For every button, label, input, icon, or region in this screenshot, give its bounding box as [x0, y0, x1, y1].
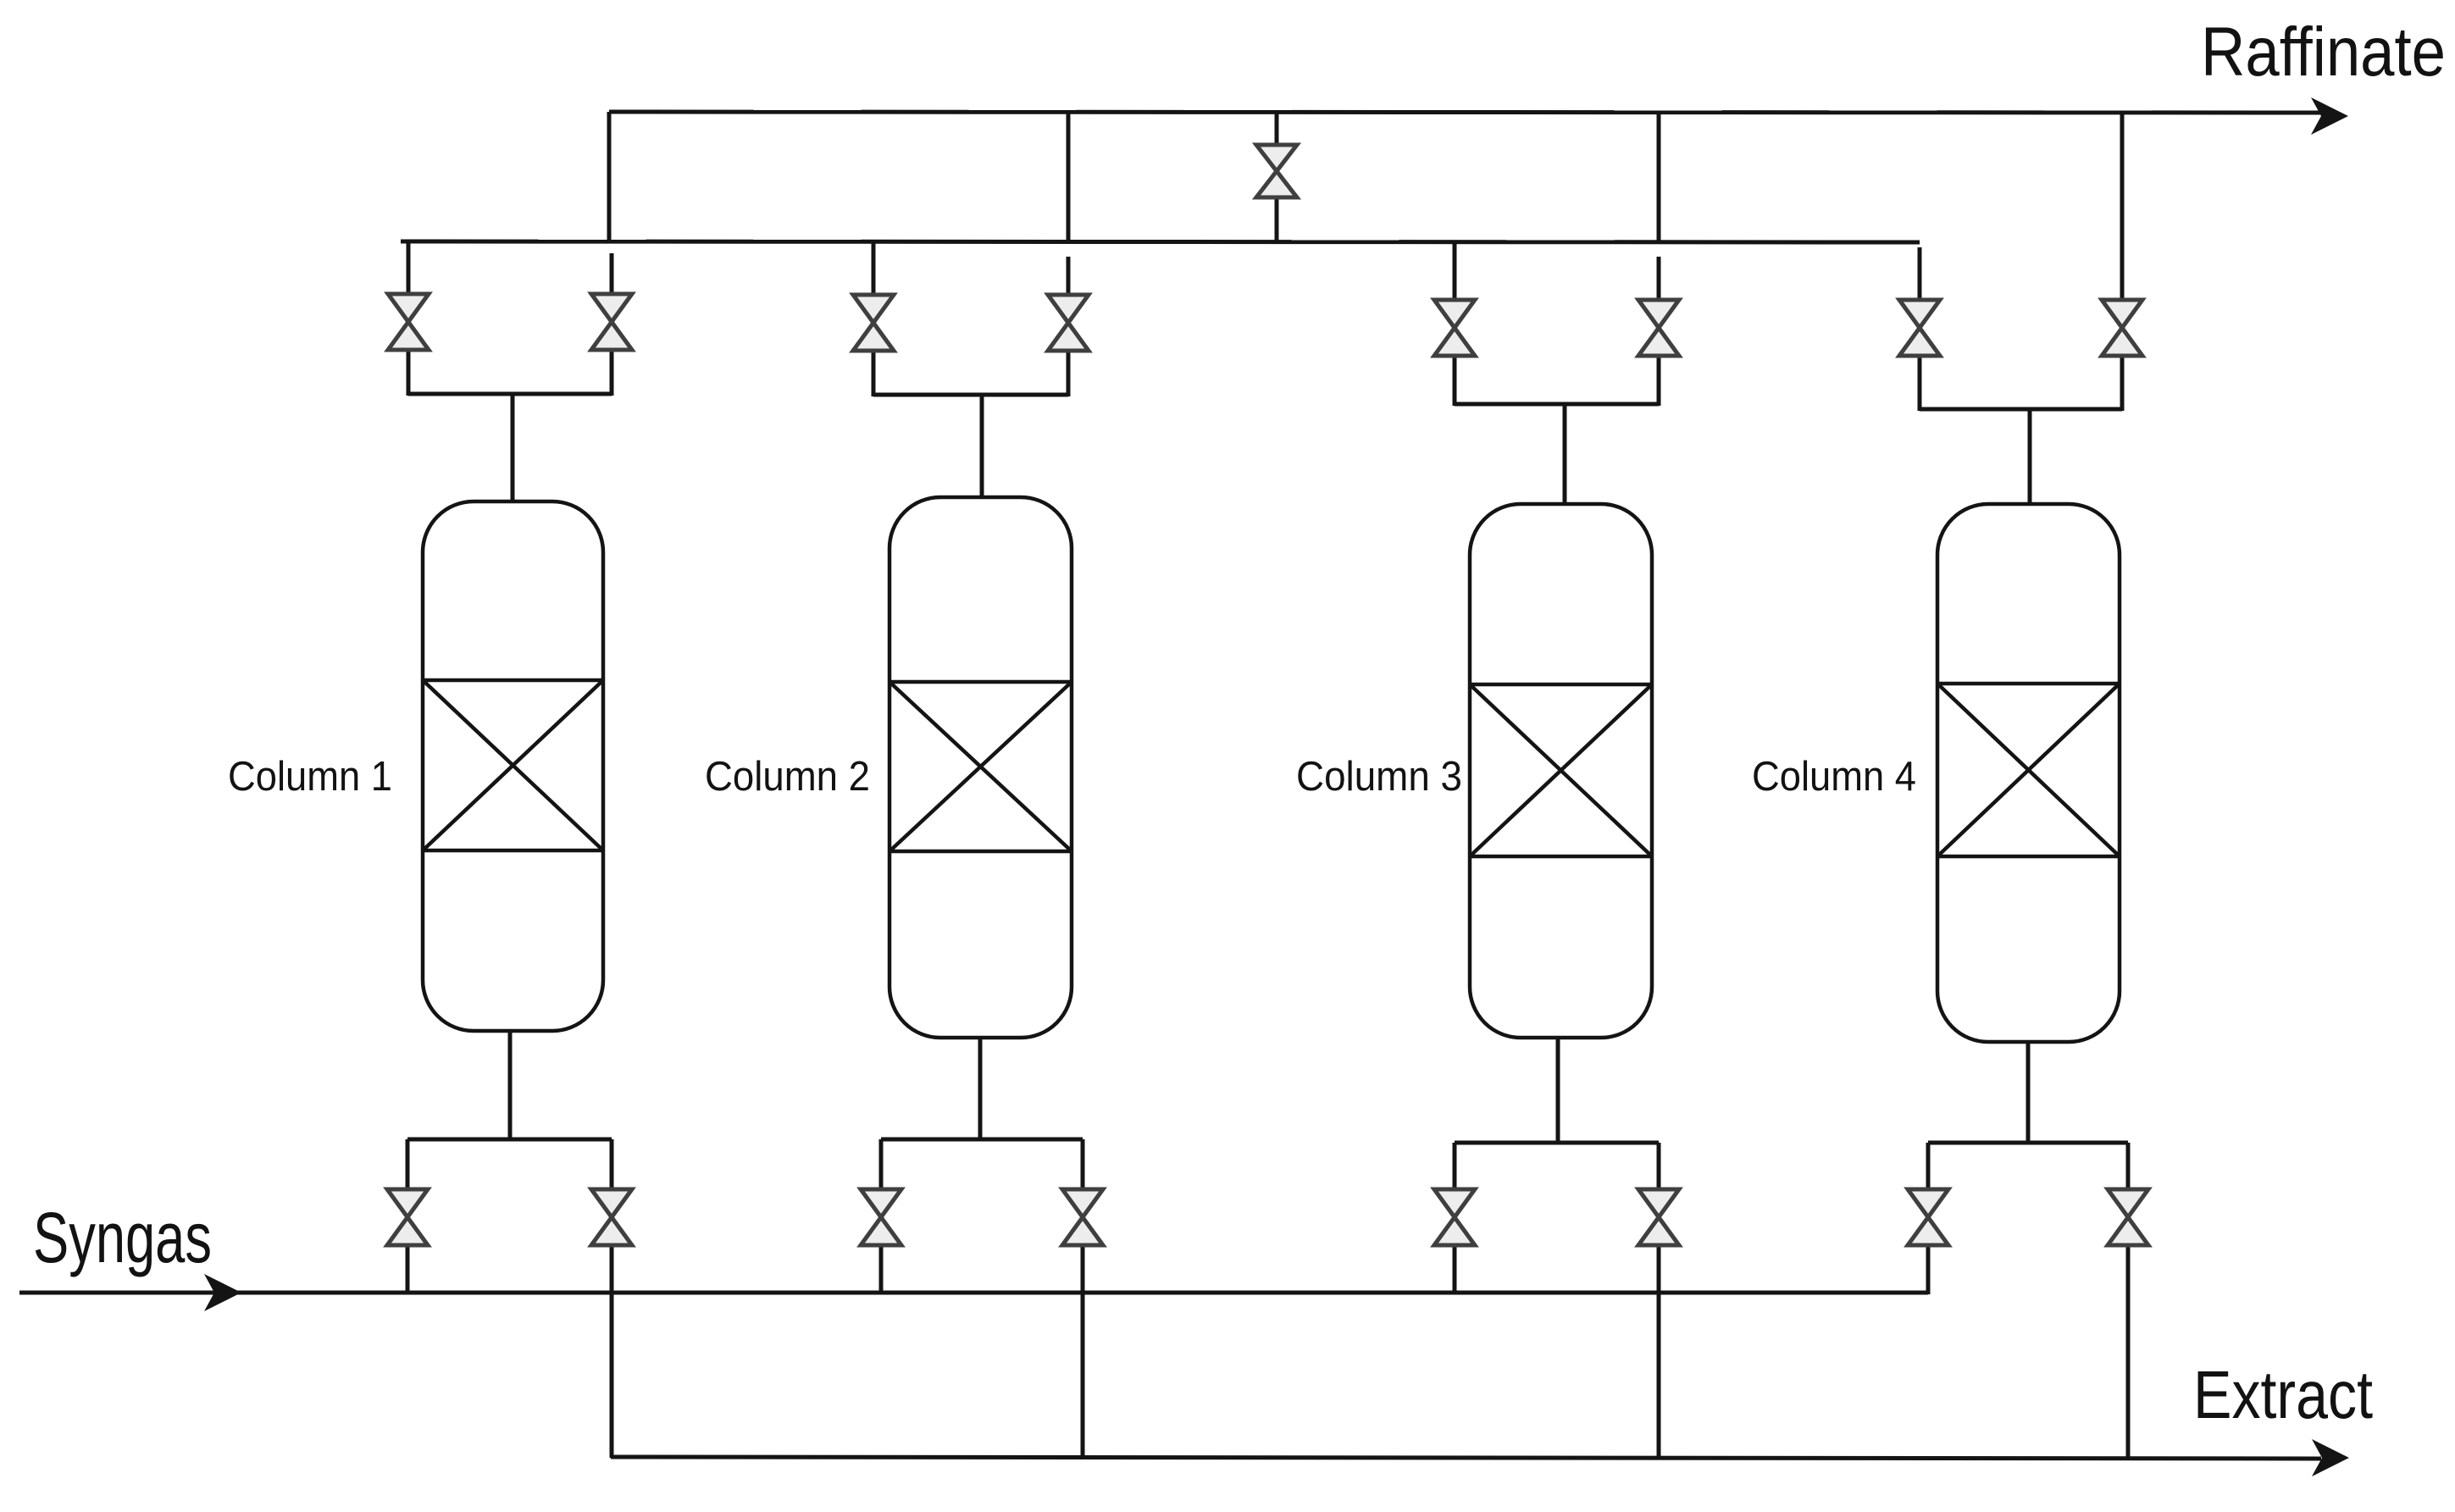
wire stem valve V1 to bracket [407, 348, 411, 396]
valve V11 column1 bottom-left [387, 1189, 428, 1217]
column C2 bed cross [889, 682, 1072, 851]
wire column3 top stub [1563, 404, 1567, 506]
wire stem valve V8 to bracket [2120, 354, 2125, 411]
valve V12 column1 bottom-right [591, 1189, 632, 1217]
wire stem bracket to valve V12 [610, 1139, 614, 1191]
extract arrowhead [2312, 1439, 2349, 1476]
wire stem valve V15 to syngas manifold [1453, 1243, 1457, 1294]
wire stem valve V16 to extract line [1657, 1243, 1661, 1458]
column C1 bed cross [423, 680, 603, 850]
wire stem valve V6 to bracket [1657, 354, 1661, 406]
wire riser to valve V9 upper stem [1275, 113, 1279, 145]
wire stem valve V18 to extract line [2126, 1243, 2131, 1458]
wire stem valve V11 to syngas manifold [406, 1243, 410, 1294]
wire stem bracket to valve V11 [406, 1139, 410, 1191]
wire valve V9 lower stem [1275, 197, 1279, 242]
wire top bracket column4 [1920, 407, 2122, 412]
wire stem valve V2 to bracket [610, 348, 614, 396]
wire column1 top stub [511, 394, 515, 503]
wire stem bus to valve V1 [407, 241, 411, 296]
wire stem valve V7 to bracket [1918, 354, 1922, 411]
wire stem bus to valve V3 [872, 241, 876, 296]
wire stem bus to valve V4 [1067, 257, 1071, 296]
wire upper manifold bus [401, 241, 1920, 242]
wire column4 top stub [2028, 409, 2032, 506]
column C3 vessel [1470, 504, 1652, 1038]
wire stem bus to valve V5 [1453, 241, 1457, 302]
column C3 bed cross [1470, 684, 1652, 856]
wire stem bracket to valve V14 [1081, 1139, 1085, 1191]
column C3 bed bottom line [1470, 855, 1652, 859]
wire stem valve V17 to syngas manifold [1926, 1243, 1931, 1294]
valve V3 column2 top-left [853, 295, 894, 323]
column C1 bed top line [423, 678, 603, 683]
wire top bracket column1 [408, 392, 612, 396]
wire riser column2 outlet [1067, 113, 1071, 242]
valve V7 column4 top-left [1899, 300, 1940, 328]
svg-text:Extract: Extract [2193, 1357, 2373, 1432]
svg-text:Raffinate: Raffinate [2201, 14, 2446, 91]
column C2 vessel [889, 497, 1072, 1038]
raffinate arrowhead [2311, 97, 2348, 135]
wire bottom bracket column2 [881, 1138, 1083, 1142]
column C4 bed top line [1937, 682, 2120, 686]
wire stem bracket to valve V15 [1453, 1143, 1457, 1191]
valve V16 column3 bottom-right [1638, 1189, 1679, 1217]
wire stem valve V4 to bracket [1067, 349, 1071, 396]
wire stem valve V5 to bracket [1453, 354, 1457, 406]
wire stem bus to valve V2 [610, 253, 614, 296]
wire column3 bottom stub [1556, 1036, 1560, 1144]
valve V1 column1 top-left [388, 294, 429, 322]
wire stem valve V3 to bracket [872, 349, 876, 396]
valve V13 column2 bottom-left [861, 1189, 901, 1217]
valve V4 column2 top-right [1048, 295, 1089, 323]
valve V18 column4 bottom-right [2108, 1189, 2148, 1217]
wire syngas manifold [19, 1291, 1928, 1295]
valve V2 column1 top-right [591, 294, 632, 322]
wire stem valve V14 to extract line [1081, 1243, 1085, 1458]
valve V8 column4 top-right [2102, 300, 2142, 328]
wire riser column4 outlet [2120, 113, 2125, 302]
wire bottom bracket column1 [407, 1138, 612, 1142]
svg-text:Column 4: Column 4 [1752, 754, 1916, 800]
wire stem bracket to valve V16 [1657, 1143, 1661, 1191]
svg-text:Syngas: Syngas [33, 1198, 212, 1277]
wire stem bus to valve V6 [1657, 257, 1661, 302]
wire stem bracket to valve V13 [879, 1139, 884, 1191]
wire raffinate header [609, 112, 2325, 113]
column C1 vessel [423, 501, 603, 1031]
wire column4 bottom stub [2026, 1040, 2031, 1144]
wire stem valve V12 to extract line [610, 1243, 614, 1458]
wire extract line [611, 1457, 2321, 1459]
svg-text:Column 1: Column 1 [228, 754, 392, 800]
column C4 vessel [1937, 504, 2120, 1042]
wire riser column3 outlet [1657, 113, 1661, 242]
wire top bracket column2 [873, 393, 1068, 397]
wire stem bracket to valve V18 [2126, 1143, 2131, 1191]
wire column2 bottom stub [978, 1036, 983, 1141]
wire column1 bottom stub [508, 1029, 513, 1141]
column C2 bed top line [889, 680, 1072, 684]
column C2 bed bottom line [889, 850, 1072, 854]
valve V5 column3 top-left [1434, 300, 1475, 328]
wire top bracket column3 [1455, 402, 1659, 407]
wire stem valve V13 to syngas manifold [879, 1243, 884, 1294]
wire bottom bracket column3 [1455, 1141, 1659, 1145]
valve V6 column3 top-right [1638, 300, 1679, 328]
wire bottom bracket column4 [1928, 1141, 2128, 1145]
column C4 bed cross [1937, 684, 2120, 856]
wire top-left riser [607, 112, 612, 242]
svg-text:Column 3: Column 3 [1296, 754, 1462, 800]
syngas arrowhead [204, 1274, 241, 1311]
column C3 bed top line [1470, 683, 1652, 687]
column C4 bed bottom line [1937, 855, 2120, 859]
valve V15 column3 bottom-left [1434, 1189, 1475, 1217]
wire stem bus to valve V7 [1918, 247, 1922, 302]
valve V9 raffinate bypass [1256, 145, 1297, 171]
column C1 bed bottom line [423, 849, 603, 853]
valve V17 column4 bottom-left [1908, 1189, 1948, 1217]
wire column2 top stub [980, 395, 984, 499]
wire stem bracket to valve V17 [1926, 1143, 1931, 1191]
svg-text:Column 2: Column 2 [705, 754, 870, 800]
valve V14 column2 bottom-right [1062, 1189, 1103, 1217]
